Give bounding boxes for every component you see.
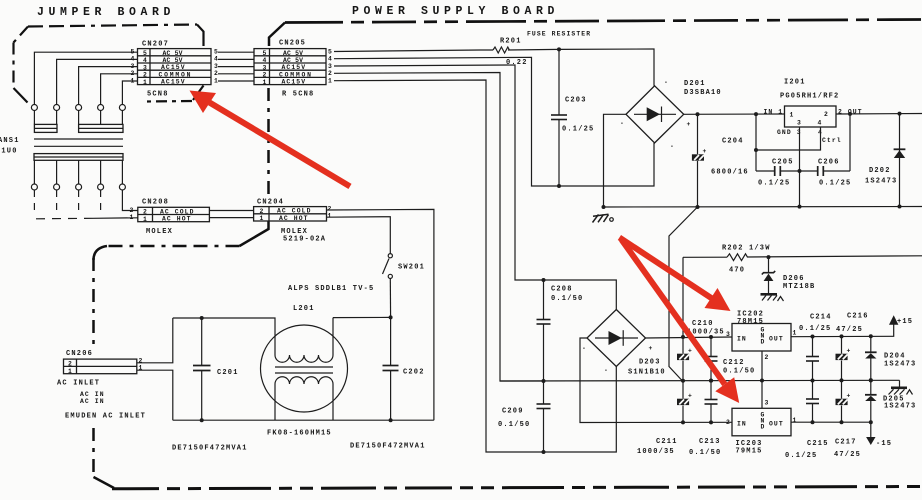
wire CN208 pin2 to transformer tap <box>122 190 137 211</box>
svg-text:AC 5V: AC 5V <box>163 57 183 64</box>
svg-text:AC IN: AC IN <box>80 391 105 398</box>
svg-text:1S2473: 1S2473 <box>865 178 897 186</box>
svg-text:0.1/25: 0.1/25 <box>819 180 851 188</box>
svg-text:C202: C202 <box>403 369 425 377</box>
svg-text:3: 3 <box>131 63 135 70</box>
filter bottom rail <box>173 419 434 421</box>
svg-text:D203: D203 <box>639 359 661 367</box>
svg-text:1: 1 <box>328 77 332 84</box>
wire AC15V to D203 top <box>334 65 616 310</box>
svg-text:1: 1 <box>263 79 267 86</box>
wire CN207 to CN205 <box>218 52 254 81</box>
diode D205 <box>865 378 916 422</box>
svg-text:Ctrl: Ctrl <box>822 137 842 144</box>
svg-text:+: + <box>703 148 707 155</box>
svg-text:+: + <box>847 393 851 400</box>
svg-text:3: 3 <box>797 120 801 127</box>
svg-text:-: - <box>664 79 668 86</box>
svg-text:ANS1: ANS1 <box>0 137 20 145</box>
svg-text:C205: C205 <box>772 159 794 167</box>
svg-text:+: + <box>688 393 692 400</box>
wire D203 minus to minus rail <box>580 338 732 423</box>
svg-text:C208: C208 <box>551 286 573 294</box>
svg-text:C217: C217 <box>835 439 857 447</box>
svg-text:0.1/50: 0.1/50 <box>498 421 530 429</box>
svg-text:5219-02A: 5219-02A <box>283 236 326 244</box>
transformer winding stubs top <box>34 110 122 124</box>
svg-text:2: 2 <box>139 358 143 365</box>
svg-text:-: - <box>670 143 674 150</box>
resistor R202 <box>683 245 922 338</box>
svg-text:2: 2 <box>68 361 72 368</box>
wire I201 gnd pin3 down <box>799 127 801 207</box>
svg-text:0.1/50: 0.1/50 <box>551 295 583 303</box>
svg-text:MTZ18B: MTZ18B <box>783 283 815 291</box>
ground symbol A (hatched) below D206 <box>761 293 784 301</box>
svg-text:+: + <box>687 121 691 128</box>
svg-text:47/25: 47/25 <box>836 326 863 334</box>
wire IC202 gnd pin2 <box>761 351 763 381</box>
svg-text:2: 2 <box>143 72 147 79</box>
svg-text:AC INLET: AC INLET <box>57 380 100 388</box>
wire COMMON to ground rail <box>334 73 544 382</box>
wire AC5V second to D201 bottom <box>334 57 654 186</box>
regulator I201 <box>764 79 863 145</box>
wire CN204 pin2 to filter bottom rail <box>327 209 434 420</box>
svg-text:3: 3 <box>263 64 267 71</box>
wire transformer taps to CN207 <box>34 52 137 104</box>
filter top rail right <box>333 316 391 318</box>
svg-text:0.1/25: 0.1/25 <box>562 126 594 134</box>
wire I201 ctrl pin4 loop <box>756 114 821 150</box>
svg-text:6800/16: 6800/16 <box>711 169 749 177</box>
capacitor C210 <box>677 320 725 383</box>
wire I201 OUT rail <box>836 113 922 116</box>
capacitor C216 <box>836 313 869 383</box>
svg-text:D: D <box>761 424 765 431</box>
svg-text:AC15V: AC15V <box>161 64 186 71</box>
svg-text:C201: C201 <box>217 369 239 377</box>
svg-text:COMMON: COMMON <box>279 71 313 78</box>
transformer secondary winding 2 <box>79 124 123 132</box>
svg-text:CN206: CN206 <box>66 350 93 358</box>
svg-text:1: 1 <box>793 330 797 337</box>
CN207 outside pin numbers right <box>214 49 218 85</box>
wire CN206 pin2 to filter top rail <box>137 318 173 363</box>
svg-text:78M15: 78M15 <box>737 318 764 326</box>
svg-text:C214: C214 <box>810 314 832 322</box>
connector CN205 <box>254 40 332 99</box>
svg-text:ALPS SDDLB1 TV-5: ALPS SDDLB1 TV-5 <box>288 285 374 293</box>
svg-text:3: 3 <box>143 64 147 71</box>
connector CN208 <box>130 199 210 237</box>
svg-text:4: 4 <box>214 56 218 63</box>
svg-text:EMUDEN AC INLET: EMUDEN AC INLET <box>65 413 146 421</box>
svg-text:1: 1 <box>143 79 147 86</box>
svg-text:FUSE RESISTER: FUSE RESISTER <box>527 31 591 38</box>
wire CN208 pin1 left (dashed off) <box>35 218 138 219</box>
svg-text:OUT: OUT <box>769 421 784 428</box>
svg-text:0.1/25: 0.1/25 <box>758 180 790 188</box>
svg-text:0.22: 0.22 <box>506 59 528 67</box>
-15 arrow <box>866 437 875 445</box>
svg-text:0.1/50: 0.1/50 <box>723 368 755 376</box>
svg-text:GND 3: GND 3 <box>777 129 802 136</box>
svg-text:2: 2 <box>214 70 218 77</box>
svg-text:4: 4 <box>131 56 135 63</box>
svg-text:JUMPER BOARD: JUMPER BOARD <box>37 6 175 19</box>
transformer TRANS1 <box>0 52 138 216</box>
svg-text:47/25: 47/25 <box>834 451 861 459</box>
transformer primary stubs bottom <box>34 160 122 184</box>
wire AC5V top rail to D201 <box>334 50 493 52</box>
svg-text:-: - <box>620 120 624 127</box>
svg-text:1: 1 <box>214 77 218 84</box>
svg-text:C206: C206 <box>818 159 840 167</box>
wire D201 plus to I201 IN <box>684 113 785 115</box>
svg-text:AC COLD: AC COLD <box>160 208 195 215</box>
svg-text:AC HOT: AC HOT <box>162 216 192 223</box>
wire D201 minus to ground <box>604 114 627 207</box>
wire D203 plus rail to IC202 IN <box>646 337 733 338</box>
svg-text:S1N1B10: S1N1B10 <box>628 369 666 377</box>
wire ground diagonal link to mid section <box>669 207 698 381</box>
svg-text:4: 4 <box>263 57 267 64</box>
zener diode D206 <box>762 257 816 293</box>
svg-text:C211: C211 <box>656 438 678 446</box>
svg-text:PG05RH1/RF2: PG05RH1/RF2 <box>780 93 839 101</box>
svg-text:2: 2 <box>143 209 147 216</box>
transformer primary winding <box>34 154 123 161</box>
svg-text:2: 2 <box>131 70 135 77</box>
svg-text:3: 3 <box>726 331 730 338</box>
svg-text:COMMON: COMMON <box>159 71 193 78</box>
capacitor C212 <box>705 335 756 383</box>
svg-text:D3SBA10: D3SBA10 <box>684 89 722 97</box>
svg-text:AC15V: AC15V <box>161 79 186 86</box>
svg-text:3: 3 <box>765 400 769 407</box>
svg-text:-15: -15 <box>876 440 892 448</box>
svg-text:5: 5 <box>143 50 147 57</box>
diode D204 <box>865 334 916 382</box>
svg-text:0.1/50: 0.1/50 <box>689 449 721 457</box>
CN207 outside pin numbers left <box>131 49 135 85</box>
svg-text:4: 4 <box>143 57 147 64</box>
svg-text:IN: IN <box>737 421 747 428</box>
svg-text:IN: IN <box>737 336 747 343</box>
svg-text:C213: C213 <box>699 438 721 446</box>
svg-text:2: 2 <box>726 419 730 426</box>
svg-text:AC 5V: AC 5V <box>163 50 183 57</box>
svg-text:1S2473: 1S2473 <box>884 403 916 411</box>
svg-text:AC15V: AC15V <box>282 64 307 71</box>
svg-text:CN204: CN204 <box>257 199 284 207</box>
ground rail mid section <box>500 379 900 382</box>
svg-text:1: 1 <box>68 368 72 375</box>
capacitor C208 <box>537 278 584 381</box>
svg-text:R 5CN8: R 5CN8 <box>282 91 314 99</box>
svg-text:1000/35: 1000/35 <box>637 448 675 456</box>
svg-text:D: D <box>761 339 765 346</box>
capacitor C205 <box>758 159 794 188</box>
svg-text:4: 4 <box>328 56 332 63</box>
svg-text:5: 5 <box>328 49 332 56</box>
svg-text:R202 1/3W: R202 1/3W <box>722 245 771 253</box>
transformer unused tap dashed stubs <box>34 190 100 216</box>
bridge rectifier D201 <box>620 79 722 150</box>
capacitor C209 <box>498 379 551 454</box>
wire IC203 gnd pin3 <box>761 381 763 409</box>
svg-text:C216: C216 <box>847 313 869 321</box>
svg-text:IN 1: IN 1 <box>764 109 784 116</box>
jumper board border <box>14 25 204 103</box>
wire CN204 pin1 to switch <box>327 217 391 254</box>
svg-text:C210: C210 <box>692 320 714 328</box>
capacitor C213 <box>689 379 721 457</box>
svg-text:DE7150F472MVA1: DE7150F472MVA1 <box>350 443 426 451</box>
svg-text:OUT: OUT <box>769 336 784 343</box>
wire C205/C206 row <box>756 114 850 171</box>
svg-text:5CN8: 5CN8 <box>147 91 169 99</box>
svg-text:3: 3 <box>328 63 332 70</box>
capacitor C203 <box>551 47 594 188</box>
svg-text:C203: C203 <box>565 97 587 105</box>
capacitor C214 <box>799 314 832 383</box>
svg-text:C215: C215 <box>807 440 829 448</box>
svg-text:0.1/25: 0.1/25 <box>785 452 817 460</box>
svg-text:2: 2 <box>260 208 264 215</box>
svg-text:0.1/25: 0.1/25 <box>799 325 831 333</box>
svg-text:D204: D204 <box>884 353 906 361</box>
svg-text:I201: I201 <box>784 79 806 87</box>
svg-text:2: 2 <box>328 206 332 213</box>
svg-text:D206: D206 <box>783 275 805 283</box>
wire CN206 pin1 to filter bottom rail <box>137 370 173 420</box>
svg-text:AC COLD: AC COLD <box>277 208 312 215</box>
svg-text:DE7150F472MVA1: DE7150F472MVA1 <box>172 445 248 453</box>
CN205 outside pin numbers right <box>328 49 332 85</box>
red annotation arrow 3 <box>622 240 740 403</box>
capacitor C217 <box>834 380 861 459</box>
svg-text:CN208: CN208 <box>142 199 169 207</box>
svg-text:SW201: SW201 <box>398 264 425 272</box>
ground rail top section <box>604 206 922 209</box>
connector CN207 <box>131 41 219 99</box>
capacitor C202 <box>383 317 425 422</box>
svg-text:4: 4 <box>818 120 822 127</box>
svg-text:2: 2 <box>765 354 769 361</box>
red annotation arrow 1 <box>190 91 351 187</box>
+15 arrow <box>889 315 898 325</box>
svg-text:D201: D201 <box>684 80 706 88</box>
capacitor C201 <box>193 316 239 422</box>
svg-text:AC HOT: AC HOT <box>279 215 309 222</box>
capacitor C206 <box>818 159 852 188</box>
transformer bottom terminal circles <box>31 184 125 190</box>
svg-text:-: - <box>582 345 586 352</box>
connector CN206 <box>57 350 146 421</box>
resistor R201 <box>334 38 654 86</box>
wire -15 output rail <box>791 422 871 437</box>
svg-text:C212: C212 <box>723 359 745 367</box>
svg-text:L201: L201 <box>293 305 315 313</box>
filter top rail <box>173 318 275 349</box>
svg-text:1: 1 <box>131 77 135 84</box>
svg-text:1: 1 <box>328 213 332 220</box>
ground rail end hatched symbol A <box>889 380 913 394</box>
svg-text:C204: C204 <box>722 138 744 146</box>
wire +15 output rail <box>791 325 894 337</box>
ground symbol (slash style) <box>593 205 614 223</box>
svg-text:+15: +15 <box>897 318 913 326</box>
svg-text:+: + <box>649 345 653 352</box>
switch SW201 <box>383 254 426 318</box>
svg-text:AC15V: AC15V <box>282 79 307 86</box>
svg-text:-: - <box>604 367 608 374</box>
svg-text:2: 2 <box>263 72 267 79</box>
svg-text:470: 470 <box>729 267 745 275</box>
svg-text:41U0: 41U0 <box>0 148 18 156</box>
svg-text:CN205: CN205 <box>279 40 306 48</box>
svg-text:2: 2 <box>328 70 332 77</box>
capacitor C215 <box>785 381 829 461</box>
regulator IC202 <box>726 311 797 362</box>
svg-text:5: 5 <box>263 50 267 57</box>
svg-text:79M15: 79M15 <box>736 448 763 456</box>
capacitor C204 <box>692 114 749 209</box>
svg-text:POWER SUPPLY BOARD: POWER SUPPLY BOARD <box>352 5 559 18</box>
svg-text:1: 1 <box>260 215 264 222</box>
svg-text:+: + <box>847 348 851 355</box>
svg-text:3: 3 <box>214 63 218 70</box>
svg-text:5: 5 <box>131 49 135 56</box>
inductor L201 common mode choke <box>261 305 348 438</box>
svg-text:1: 1 <box>790 112 794 119</box>
svg-text:5: 5 <box>214 49 218 56</box>
transformer top terminal circles <box>31 105 125 111</box>
transformer core <box>34 139 123 146</box>
svg-text:1S2473: 1S2473 <box>884 361 916 369</box>
capacitor C211 <box>637 381 692 456</box>
wire AC15V to D203 bottom <box>334 80 616 452</box>
svg-text:R201: R201 <box>500 38 522 46</box>
svg-text:FK08-160HM15: FK08-160HM15 <box>267 430 332 438</box>
transformer secondary winding 1 <box>34 124 57 132</box>
svg-text:AC IN: AC IN <box>80 398 105 405</box>
red annotation arrow 2 <box>619 238 730 312</box>
svg-text:C209: C209 <box>502 408 524 416</box>
svg-text:AC 5V: AC 5V <box>283 57 303 64</box>
svg-text:1: 1 <box>143 216 147 223</box>
regulator IC203 <box>726 400 797 456</box>
wire CN208 to CN204 <box>209 211 253 218</box>
svg-text:1: 1 <box>793 417 797 424</box>
svg-text:CN207: CN207 <box>142 41 169 49</box>
svg-text:MOLEX: MOLEX <box>146 228 173 236</box>
node C204 top <box>696 112 700 116</box>
connector CN204 <box>254 199 332 244</box>
svg-text:2: 2 <box>824 111 828 118</box>
diode D202 <box>865 112 905 209</box>
svg-text:D202: D202 <box>869 167 891 175</box>
svg-text:+: + <box>688 348 692 355</box>
svg-text:AC 5V: AC 5V <box>283 50 303 57</box>
bridge rectifier D203 <box>582 310 666 377</box>
